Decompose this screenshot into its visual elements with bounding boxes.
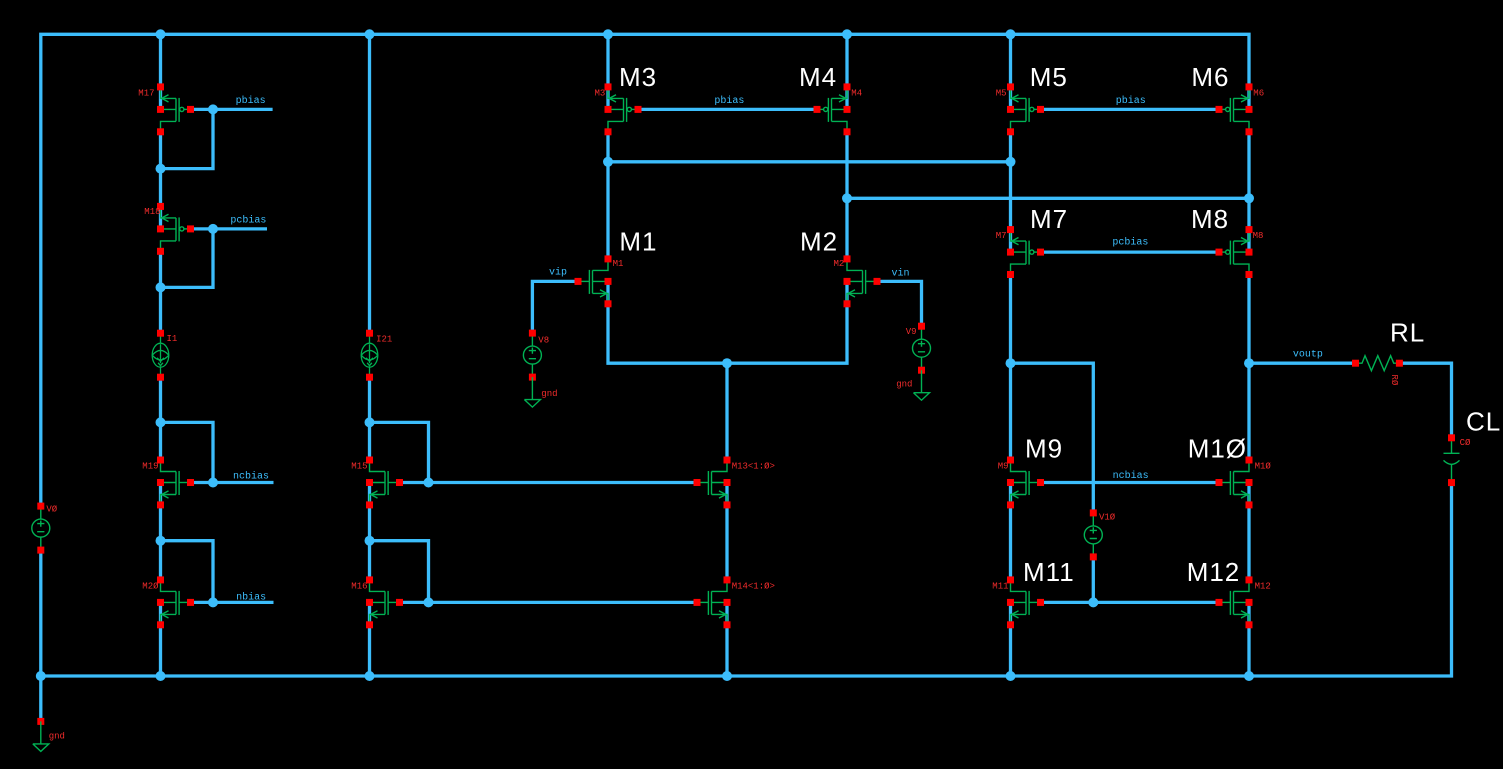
svg-text:M9: M9 [1025, 434, 1063, 464]
svg-text:M2: M2 [833, 259, 844, 269]
svg-text:M11: M11 [992, 582, 1008, 592]
junction M17 drain [156, 164, 166, 174]
svg-text:pbias: pbias [714, 95, 744, 107]
svg-text:gnd: gnd [541, 389, 557, 399]
transistor M8 [1216, 226, 1253, 278]
wire M15 source to M16 drain [368, 483, 371, 580]
wire pbias M5 to M6 [1041, 108, 1220, 111]
transistor M2 [844, 255, 881, 307]
wire M4 source-bulk tie [845, 87, 848, 109]
transistor M17 [157, 83, 194, 135]
svg-text:nbias: nbias [236, 592, 266, 604]
transistor M5 [1007, 83, 1044, 135]
wire M5 drain to M7 source [1009, 132, 1012, 228]
transistor M19 [157, 457, 194, 509]
wire M4 drain to M2 drain [845, 132, 848, 259]
svg-text:M19: M19 [142, 462, 158, 472]
junction nbias left [208, 597, 218, 607]
wire nbias stub [191, 601, 274, 604]
wire M15 diode loop [370, 422, 429, 482]
wire M3 drain to M1 drain [606, 132, 609, 259]
junction M7 drain node [1006, 358, 1016, 368]
wire node M3 drain to M5 column [608, 160, 1011, 163]
wire M20 source to gnd rail [159, 602, 162, 676]
svg-text:M2Ø: M2Ø [142, 582, 159, 592]
wire M8 drain to M10 drain voutp [1247, 275, 1250, 460]
junction gnd rail at M12 [1244, 671, 1254, 681]
wire M5 source-bulk tie [1009, 87, 1012, 109]
transistor M9 [1007, 457, 1044, 509]
wire I1 minus to M19 drain [159, 377, 162, 460]
svg-text:pbias: pbias [1116, 95, 1146, 107]
svg-text:M9: M9 [998, 462, 1009, 472]
svg-text:M13<1:Ø>: M13<1:Ø> [732, 462, 775, 472]
svg-text:M15: M15 [351, 462, 367, 472]
transistor M18 [157, 203, 194, 255]
wire V10 minus to nbias row [1092, 557, 1095, 603]
svg-text:M14<1:Ø>: M14<1:Ø> [732, 582, 775, 592]
svg-text:M4: M4 [799, 62, 837, 92]
junction gnd rail at M20 [156, 671, 166, 681]
wire gnd rail (bottom) and CL branch [41, 483, 1452, 676]
wire M7 drain to V10 plus [1011, 363, 1094, 513]
wire M16 diode loop [370, 541, 429, 603]
wire ncbias M9 to M10 [1041, 481, 1220, 484]
wire nbias row to M14 gate [400, 601, 698, 604]
wire M17 diode loop [161, 109, 214, 168]
svg-text:M3: M3 [619, 62, 657, 92]
transistor M10 [1216, 457, 1253, 509]
junction tail node [722, 358, 732, 368]
svg-text:M17: M17 [138, 89, 154, 99]
wire I21 minus to M15 drain [368, 377, 371, 460]
transistor M16 [366, 576, 403, 628]
junction voutp node [1244, 358, 1254, 368]
wire vip lead [532, 281, 578, 333]
svg-text:vin: vin [892, 268, 910, 280]
junction vdd at M3 [603, 29, 613, 39]
junction nbias at V10 [1088, 597, 1098, 607]
junction vdd at M5 [1006, 29, 1016, 39]
wire M18 drain to I1 plus [159, 252, 162, 334]
wire M20 diode loop [161, 541, 214, 603]
wire M7 source-bulk tie [1009, 228, 1012, 253]
junction vdd at M17 [156, 29, 166, 39]
svg-text:M5: M5 [996, 89, 1007, 99]
current source I21 [361, 330, 378, 381]
wire ncbias row to M13 gate [400, 481, 698, 484]
wire M17 drain to M18 source [159, 132, 162, 202]
svg-text:M6: M6 [1253, 89, 1264, 99]
svg-text:gnd: gnd [896, 380, 912, 390]
svg-text:M12: M12 [1187, 557, 1241, 587]
wire vdd to M5 source [1009, 34, 1012, 87]
wire M18 diode loop [161, 229, 214, 288]
wire pcbias stub [191, 227, 268, 230]
junction gnd rail at M11 [1006, 671, 1016, 681]
wire M3 source-bulk tie [606, 87, 609, 109]
junction ncbias mid [424, 478, 434, 488]
svg-text:ncbias: ncbias [1113, 470, 1149, 482]
svg-text:pcbias: pcbias [230, 215, 266, 227]
svg-text:vip: vip [549, 267, 567, 279]
transistor M6 [1216, 83, 1253, 135]
svg-text:M12: M12 [1255, 582, 1271, 592]
svg-text:M3: M3 [594, 89, 605, 99]
junction gnd rail at M16 [365, 671, 375, 681]
wire vdd to M17 source [159, 34, 162, 87]
junction M16 diode loop [365, 536, 375, 546]
svg-text:V1Ø: V1Ø [1099, 513, 1116, 523]
wire ncbias stub [191, 481, 274, 484]
wire M11 source to gnd rail [1009, 602, 1012, 676]
junction vdd at I21 [365, 29, 375, 39]
wire M1 source to tail node [608, 281, 727, 363]
wire vdd to M4 source [845, 34, 848, 87]
transistor M11 [1007, 576, 1044, 628]
transistor M4 [814, 83, 851, 135]
svg-text:M5: M5 [1030, 62, 1068, 92]
svg-text:RØ: RØ [1389, 375, 1399, 386]
svg-text:I1: I1 [167, 334, 178, 344]
svg-text:M6: M6 [1191, 62, 1229, 92]
wire M14 source to gnd rail [725, 602, 728, 676]
wire M9 source to M11 drain [1009, 483, 1012, 580]
svg-text:CØ: CØ [1460, 438, 1471, 448]
wire M7 drain to M9 drain [1009, 275, 1012, 460]
wire pbias M3 to M4 [638, 108, 817, 111]
wire V0 minus to gnd rail [39, 550, 42, 676]
voltage source V10 [1084, 509, 1102, 560]
svg-text:M2: M2 [800, 227, 838, 257]
svg-text:M7: M7 [996, 231, 1007, 241]
wire M16 source to gnd rail [368, 602, 371, 676]
wire RL to CL [1399, 363, 1451, 438]
wire M6 drain to M8 source [1247, 132, 1250, 228]
wire M10 source to M12 drain [1247, 483, 1250, 580]
junction M19 diode loop [156, 417, 166, 427]
svg-text:M11: M11 [1023, 557, 1075, 587]
transistor M12 [1216, 576, 1253, 628]
wire vdd to I21 plus [368, 34, 371, 333]
junction M20 diode loop [156, 536, 166, 546]
junction M5 column node [1006, 157, 1016, 167]
wire nbias M11 to M12 [1041, 601, 1220, 604]
wire M19 diode loop [161, 422, 214, 482]
svg-text:pcbias: pcbias [1112, 237, 1148, 249]
wire gnd stub bottom-left [39, 676, 42, 721]
wire vdd rail (left + top) [41, 34, 1249, 506]
svg-text:I21: I21 [376, 335, 392, 345]
wire M13 source to M14 drain [725, 483, 728, 580]
svg-text:M18: M18 [144, 207, 160, 217]
wire M17 source-bulk tie [159, 87, 162, 109]
svg-text:M16: M16 [351, 582, 367, 592]
transistor M14 [694, 576, 731, 628]
wire M6 source-bulk tie [1247, 87, 1250, 109]
svg-text:M8: M8 [1191, 204, 1229, 234]
svg-text:RL: RL [1390, 318, 1425, 348]
junction vdd at M4 [842, 29, 852, 39]
svg-text:gnd: gnd [49, 732, 65, 742]
ground at V8 [524, 377, 540, 407]
junction M18 drain [156, 282, 166, 292]
voltage source V8 [523, 330, 541, 381]
transistor M15 [366, 457, 403, 509]
ground at V0 leg [33, 718, 49, 752]
wire voutp to RL [1249, 362, 1356, 365]
junction M3 drain [603, 157, 613, 167]
svg-text:M1Ø: M1Ø [1255, 462, 1272, 472]
svg-text:pbias: pbias [236, 95, 266, 107]
svg-text:voutp: voutp [1293, 350, 1323, 361]
junction pcbias node [208, 224, 218, 234]
wire tail to M13 drain [725, 363, 728, 460]
svg-text:ncbias: ncbias [233, 471, 269, 483]
junction pbias node [208, 104, 218, 114]
transistor M1 [575, 255, 612, 307]
resistor R0 (RL) [1352, 356, 1403, 371]
ground at V9 [914, 370, 930, 400]
transistor M20 [157, 576, 194, 628]
junction nbias mid [424, 597, 434, 607]
wire M19 bulk-source to M20 drain [159, 483, 162, 580]
svg-text:V8: V8 [538, 335, 549, 345]
transistor M7 [1007, 226, 1044, 278]
wire vin lead [877, 281, 922, 326]
wire M12 source to gnd rail [1247, 602, 1250, 676]
junction gnd rail at M14 [722, 671, 732, 681]
capacitor C0 (CL) [1444, 434, 1460, 486]
junction M15 diode loop [365, 417, 375, 427]
wire pcbias M7 to M8 [1041, 250, 1220, 253]
transistor M13 [694, 457, 731, 509]
wire M18 source-bulk tie [159, 202, 162, 229]
wire M2 source to tail node [727, 281, 847, 363]
voltage source V9 [913, 323, 931, 374]
junction ncbias left [208, 478, 218, 488]
svg-text:M7: M7 [1030, 204, 1068, 234]
wire M8 source-bulk tie [1247, 228, 1250, 253]
svg-text:V9: V9 [906, 327, 917, 337]
svg-text:VØ: VØ [46, 505, 57, 515]
svg-text:M4: M4 [851, 89, 862, 99]
wire node M4 drain to M6 column [847, 197, 1249, 200]
svg-text:M1: M1 [613, 259, 624, 269]
svg-text:CL: CL [1466, 407, 1501, 437]
junction gnd rail at V0 [36, 671, 46, 681]
voltage source V0 [32, 503, 50, 554]
wire pbias stub [191, 108, 273, 111]
current source I1 [152, 330, 169, 381]
wire vdd to M3 source [606, 34, 609, 87]
svg-text:M1Ø: M1Ø [1188, 434, 1247, 464]
svg-text:M8: M8 [1253, 231, 1264, 241]
junction M6 column node [1244, 193, 1254, 203]
transistor M3 [605, 83, 642, 135]
junction M4 drain [842, 193, 852, 203]
svg-text:M1: M1 [619, 227, 657, 257]
